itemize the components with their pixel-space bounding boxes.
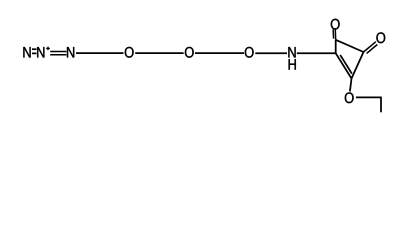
atom H on N4: [289, 59, 296, 69]
atom O2: [185, 47, 194, 58]
ring edge C-D: [352, 52, 364, 79]
ring edge A-B: [335, 40, 337, 53]
ring double bond D=A inner: [340, 55, 352, 74]
bond CH2-CH3: [380, 97, 382, 113]
atom O ethoxy: [345, 92, 354, 103]
bond D-O(Et): [350, 79, 352, 92]
carbonyl C=O right: [364, 42, 378, 54]
atom O1: [125, 47, 134, 58]
atom O right carbonyl: [376, 32, 385, 43]
atom N4: [288, 47, 295, 57]
atom N3: [67, 47, 74, 57]
double bond N1=N2: [32, 49, 37, 53]
bond O3-N4: [255, 52, 287, 54]
ring double bond D=A outer: [336, 53, 352, 78]
bond N3-O1: [76, 52, 124, 54]
atom N1: [23, 47, 30, 57]
carbonyl C=O top: [333, 29, 336, 40]
bond N4-ring: [297, 52, 337, 54]
atom O3: [245, 47, 254, 58]
atom O top carbonyl: [331, 19, 340, 30]
bond O2-O3: [195, 52, 244, 54]
bond O-CH2: [356, 96, 381, 98]
charge plus on N2: [46, 47, 50, 51]
atom N2: [37, 47, 44, 57]
bond O1-O2: [135, 52, 183, 54]
ring edge B-C: [336, 40, 364, 52]
double bond N2=N3: [50, 51, 66, 54]
